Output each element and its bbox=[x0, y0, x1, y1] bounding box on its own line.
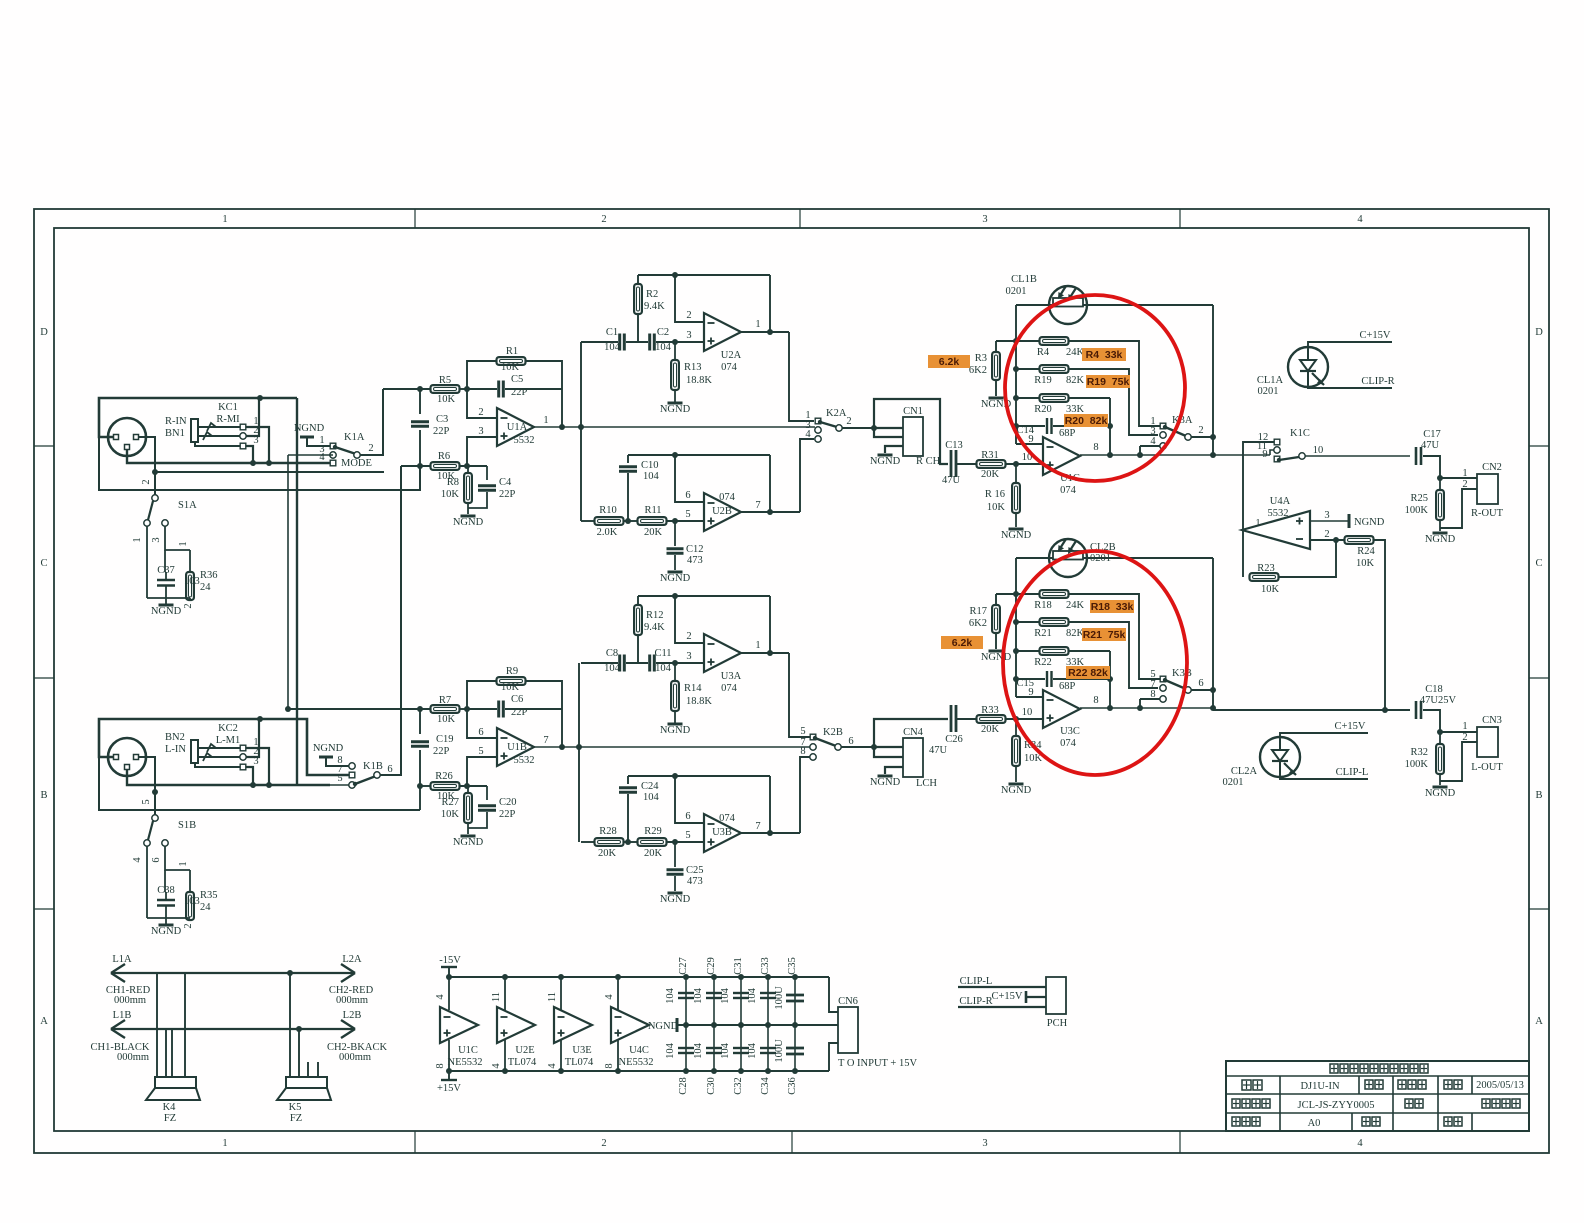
capacitor C20 bbox=[478, 806, 496, 811]
junction node top wire / KC1 pin2 bbox=[257, 395, 263, 401]
wire row3 down bbox=[1109, 398, 1111, 426]
svg-text:3: 3 bbox=[982, 1138, 987, 1149]
svg-text:R4 33k: R4 33k bbox=[1086, 349, 1123, 361]
svg-text:U2A: U2A bbox=[721, 350, 742, 361]
wire row3 left bbox=[1016, 650, 1040, 652]
junction bbox=[1210, 705, 1216, 711]
wire R25 bottom lead bbox=[1439, 520, 1441, 531]
svg-text:20K: 20K bbox=[644, 527, 663, 538]
svg-text:2: 2 bbox=[478, 407, 483, 418]
wire row1 right down to switch pin bbox=[1068, 341, 1160, 426]
svg-text:C+15V: C+15V bbox=[991, 991, 1022, 1002]
title block column line bbox=[1471, 1076, 1473, 1094]
capacitor C1 bbox=[620, 334, 625, 351]
svg-text:20K: 20K bbox=[981, 469, 1000, 480]
title block row line bbox=[1226, 1075, 1529, 1077]
wire C12 riser bbox=[674, 521, 676, 546]
svg-text:68P: 68P bbox=[1059, 681, 1076, 692]
svg-text:103: 103 bbox=[184, 576, 200, 587]
svg-text:10K: 10K bbox=[1356, 558, 1375, 569]
wire to inverting input bbox=[675, 275, 704, 322]
junction bbox=[1437, 729, 1443, 735]
resistor R3 bbox=[992, 352, 1000, 380]
svg-text:S1B: S1B bbox=[178, 820, 196, 831]
wire C12 riser bbox=[674, 842, 676, 867]
contact switch pin c bbox=[1160, 443, 1166, 449]
junction trunk bbox=[1210, 687, 1216, 693]
wire to contact bbox=[1140, 698, 1160, 700]
svg-text:0201: 0201 bbox=[1006, 286, 1027, 297]
wire C30 branch bbox=[713, 1025, 715, 1071]
svg-text:R8: R8 bbox=[447, 477, 459, 488]
svg-text:C12: C12 bbox=[686, 544, 704, 555]
svg-text:473: 473 bbox=[687, 555, 703, 566]
resistor R10 bbox=[595, 517, 624, 525]
svg-text:4: 4 bbox=[491, 1063, 502, 1069]
svg-text:NGND: NGND bbox=[1425, 534, 1456, 545]
wire C18 to CN3 bbox=[1423, 710, 1477, 732]
wire KC1 pin3 down bbox=[246, 446, 253, 463]
svg-text:2: 2 bbox=[601, 214, 606, 225]
junction bbox=[1107, 705, 1113, 711]
svg-text:104: 104 bbox=[720, 987, 731, 1004]
title cell 制图 bbox=[1365, 1080, 1383, 1089]
svg-text:NGND: NGND bbox=[660, 894, 691, 905]
wire C10 lower lead bbox=[627, 473, 629, 521]
wire bottom rail to CN6 bbox=[829, 1043, 838, 1071]
wire CN4 pin1 bbox=[874, 746, 903, 748]
svg-text:6.2k: 6.2k bbox=[939, 356, 960, 368]
wire C29 branch bbox=[713, 977, 715, 1025]
wire between caps bbox=[626, 341, 648, 343]
wire row right bbox=[656, 662, 704, 664]
junction top rail bbox=[615, 974, 621, 980]
svg-text:104: 104 bbox=[604, 663, 621, 674]
wire through CL1B bbox=[1049, 304, 1087, 306]
contact K2A pin3 bbox=[815, 427, 821, 433]
wire to pin6 bbox=[675, 776, 704, 823]
junction bbox=[1107, 452, 1113, 458]
capacitor C35 100U bbox=[786, 995, 804, 1001]
svg-text:074: 074 bbox=[719, 492, 736, 503]
svg-text:24: 24 bbox=[200, 902, 211, 913]
zone divider top bbox=[1179, 209, 1181, 228]
wire row1 left bbox=[996, 340, 1040, 342]
wire U2A output to K2A pin1 bbox=[789, 332, 814, 421]
svg-text:2.0K: 2.0K bbox=[597, 527, 618, 538]
svg-text:NE5532: NE5532 bbox=[619, 1057, 654, 1068]
svg-text:C6: C6 bbox=[511, 694, 523, 705]
contact switch pin a bbox=[1160, 676, 1166, 682]
contact switch pin b bbox=[1160, 685, 1166, 691]
wire row right bbox=[656, 341, 704, 343]
ground NGND mid rail bbox=[676, 1018, 679, 1032]
capacitor C26 bbox=[951, 705, 956, 732]
title company name 广州志士栗电子有限公司 bbox=[1330, 1064, 1428, 1073]
svg-text:BN2: BN2 bbox=[165, 732, 185, 743]
svg-text:PCH: PCH bbox=[1047, 1018, 1068, 1029]
wire R8 bottom lead bbox=[467, 823, 469, 834]
svg-text:3: 3 bbox=[1324, 510, 1329, 521]
svg-text:CLIP-L: CLIP-L bbox=[960, 976, 993, 987]
wire up to feedback resistor bbox=[467, 681, 497, 709]
highlight R18&#160;&#160;33k bbox=[1090, 600, 1134, 613]
wire +15V stem bbox=[448, 1071, 450, 1080]
junction mid rail bbox=[765, 1022, 771, 1028]
svg-text:074: 074 bbox=[721, 362, 738, 373]
wire C27 branch bbox=[685, 977, 687, 1025]
wire supply pin top U1C bbox=[448, 977, 450, 1010]
contact K1A pin4 bbox=[330, 460, 336, 466]
wire S1B pin6 to RC top bbox=[165, 846, 190, 870]
wire C37 riser bbox=[164, 550, 166, 572]
highlight R19&#160;&#160;75k bbox=[1086, 375, 1130, 388]
junction top rail bbox=[738, 974, 744, 980]
wire K2A pin2 right bbox=[842, 427, 874, 429]
op-amp U3E bbox=[554, 1007, 592, 1043]
junction R8 node bbox=[464, 783, 470, 789]
resistor R9 bbox=[497, 677, 526, 685]
wire row2 left bbox=[1016, 621, 1040, 623]
svg-text:10K: 10K bbox=[437, 714, 456, 725]
svg-text:KC2: KC2 bbox=[218, 723, 238, 734]
wire trunk x579 bbox=[578, 663, 580, 842]
wire KC2 pin1 down bbox=[246, 748, 269, 785]
svg-text:5532: 5532 bbox=[514, 755, 535, 766]
svg-text:22P: 22P bbox=[499, 489, 516, 500]
wire C12 bottom lead bbox=[674, 555, 676, 570]
svg-text:R22: R22 bbox=[1034, 657, 1052, 668]
wire R13 bottom lead bbox=[674, 711, 676, 723]
capacitor C28 bbox=[678, 1048, 694, 1053]
wire main row ch1 bbox=[533, 426, 815, 428]
wire R13 top lead bbox=[674, 342, 676, 360]
wire C32 branch bbox=[740, 1025, 742, 1071]
svg-text:5: 5 bbox=[800, 726, 805, 737]
wire XLR2 left down long y810 bbox=[99, 757, 420, 810]
ground NGND U4A pin3 bbox=[1348, 514, 1351, 528]
svg-text:C18: C18 bbox=[1425, 684, 1443, 695]
wire R13 bottom lead bbox=[674, 390, 676, 402]
contact S1B pin6 bbox=[162, 840, 168, 846]
svg-text:104: 104 bbox=[747, 987, 758, 1004]
wire C4 bottom bbox=[468, 812, 487, 828]
svg-text:C31: C31 bbox=[733, 957, 744, 975]
ground NGND S1A bbox=[151, 605, 182, 617]
wire C28 branch bbox=[685, 1025, 687, 1071]
wire XLR1 left down long y490 bbox=[99, 437, 420, 490]
svg-text:B: B bbox=[1535, 790, 1542, 801]
wire to inverting input bbox=[675, 596, 704, 643]
svg-text:U1A: U1A bbox=[507, 422, 528, 433]
capacitor C36 100U bbox=[786, 1048, 804, 1054]
title block column line bbox=[1358, 1076, 1360, 1094]
wire to ground bbox=[165, 598, 167, 604]
svg-text:82K: 82K bbox=[1066, 628, 1085, 639]
LED CL2A bbox=[1260, 737, 1300, 777]
capacitor C12 bbox=[667, 549, 684, 554]
contact K1B pin7 bbox=[349, 772, 355, 778]
resistor R20 bbox=[1040, 394, 1069, 402]
contact KC2 pin3 bbox=[240, 764, 246, 770]
wire CL1B row left bbox=[1016, 304, 1049, 306]
svg-text:B: B bbox=[40, 790, 47, 801]
svg-text:10K: 10K bbox=[987, 502, 1006, 513]
junction R34 node bbox=[1013, 716, 1019, 722]
junction trunk bbox=[576, 744, 582, 750]
svg-text:KC1: KC1 bbox=[218, 402, 238, 413]
arrow L2B bbox=[341, 1020, 355, 1038]
wire bbox=[459, 708, 467, 710]
capacitor C37 bbox=[157, 580, 175, 586]
svg-text:CN1: CN1 bbox=[903, 406, 923, 417]
resistor R11 bbox=[638, 517, 667, 525]
svg-text:L1B: L1B bbox=[113, 1010, 132, 1021]
wire into pin11 bbox=[1270, 450, 1274, 455]
junction bbox=[296, 1026, 302, 1032]
wire to speaker K4 c bbox=[165, 1029, 167, 1077]
connector PCH bbox=[1046, 977, 1066, 1014]
capacitor C32 bbox=[733, 1048, 749, 1053]
wire R23 to pin2 node bbox=[1279, 540, 1336, 577]
capacitor C30 bbox=[706, 1048, 722, 1053]
op-amp U2A bbox=[704, 313, 741, 351]
wire L1A-L2A bbox=[111, 972, 355, 974]
svg-text:NGND: NGND bbox=[648, 1021, 679, 1032]
svg-text:D: D bbox=[40, 327, 48, 338]
svg-text:C27: C27 bbox=[678, 957, 689, 975]
svg-text:R7: R7 bbox=[439, 695, 451, 706]
junction bus bbox=[1013, 676, 1019, 682]
junction bbox=[1107, 676, 1113, 682]
capacitor C6 bbox=[499, 701, 504, 718]
resistor R36 bbox=[186, 572, 194, 600]
svg-text:R35: R35 bbox=[200, 890, 218, 901]
title block column line bbox=[1471, 1113, 1473, 1131]
capacitor C3 bbox=[411, 422, 429, 427]
resistor R6 bbox=[431, 462, 460, 470]
svg-text:9.4K: 9.4K bbox=[644, 301, 665, 312]
svg-text:68P: 68P bbox=[1059, 428, 1076, 439]
junction bus bbox=[1013, 423, 1019, 429]
junction top rail bbox=[502, 974, 508, 980]
junction R16 node bbox=[1013, 461, 1019, 467]
wire CL1A to C+15V bbox=[1308, 342, 1392, 349]
svg-text:1: 1 bbox=[1255, 518, 1260, 529]
capacitor C27 bbox=[678, 993, 694, 998]
svg-text:R24: R24 bbox=[1357, 546, 1375, 557]
wire K1A pin3 left bbox=[288, 454, 333, 456]
title cell 序批人 bbox=[1398, 1080, 1426, 1089]
wire C36 branch bbox=[794, 1025, 796, 1071]
capacitor C24 bbox=[619, 788, 637, 793]
svg-text:6: 6 bbox=[478, 727, 483, 738]
contact S1A pin2 bbox=[152, 495, 158, 501]
svg-text:R18 33k: R18 33k bbox=[1091, 601, 1134, 613]
svg-text:104: 104 bbox=[643, 471, 660, 482]
title cell 日期2 bbox=[1444, 1117, 1462, 1126]
svg-text:4: 4 bbox=[319, 452, 325, 463]
resistor R19 bbox=[1040, 365, 1069, 373]
svg-text:5: 5 bbox=[685, 509, 690, 520]
svg-text:2: 2 bbox=[1198, 425, 1203, 436]
svg-text:K2A: K2A bbox=[826, 408, 847, 419]
title block column line bbox=[1437, 1076, 1439, 1131]
svg-text:82K: 82K bbox=[1066, 375, 1085, 386]
resistor R25 bbox=[1436, 490, 1444, 520]
junction bbox=[625, 518, 631, 524]
wire CN1 pin3 to ground bbox=[885, 446, 903, 453]
wire switch common to trunk bbox=[1191, 689, 1213, 691]
resistor R21 bbox=[1040, 618, 1069, 626]
svg-text:K2B: K2B bbox=[823, 727, 843, 738]
wire supply pin bottom U4C bbox=[617, 1040, 619, 1071]
junction bottom rail bbox=[615, 1068, 621, 1074]
wire S1A down left bbox=[146, 526, 148, 598]
ground NGND CN4 bbox=[870, 776, 901, 788]
wire bbox=[623, 520, 638, 522]
svg-text:CLIP-R: CLIP-R bbox=[959, 996, 992, 1007]
svg-text:R18: R18 bbox=[1034, 600, 1052, 611]
wire CLIP-L bbox=[958, 986, 1046, 988]
zone divider bottom bbox=[414, 1131, 416, 1153]
svg-text:4: 4 bbox=[805, 429, 811, 440]
contact K1C pin11 bbox=[1274, 447, 1280, 453]
wire trunk x288 down to R7 row bbox=[287, 455, 289, 709]
resistor R35 bbox=[186, 892, 194, 920]
junction bbox=[1210, 452, 1216, 458]
junction bottom rail bbox=[446, 1068, 452, 1074]
wire to inverting input bbox=[467, 389, 497, 418]
zone divider top bbox=[414, 209, 416, 228]
svg-text:R26: R26 bbox=[435, 771, 453, 782]
svg-text:2: 2 bbox=[183, 923, 194, 928]
svg-text:000mm: 000mm bbox=[114, 995, 146, 1006]
svg-text:U3B: U3B bbox=[712, 827, 732, 838]
wire NGND to K1B pin8 bbox=[326, 757, 349, 766]
resistor R17 bbox=[992, 605, 1000, 633]
contact K1B pin5 bbox=[349, 782, 355, 788]
wire K2B pin6 right bbox=[841, 746, 874, 748]
svg-text:473: 473 bbox=[687, 876, 703, 887]
svg-text:CN3: CN3 bbox=[1482, 715, 1502, 726]
junction bottom rail bbox=[558, 1068, 564, 1074]
wire CN1 pin2 bbox=[874, 428, 903, 437]
svg-text:5532: 5532 bbox=[1268, 508, 1289, 519]
zone divider left bbox=[34, 677, 54, 679]
svg-text:103: 103 bbox=[184, 896, 200, 907]
svg-text:100K: 100K bbox=[1405, 505, 1429, 516]
wire long y472 bbox=[155, 471, 384, 473]
svg-text:1: 1 bbox=[543, 415, 548, 426]
svg-text:NGND: NGND bbox=[294, 423, 325, 434]
junction bbox=[672, 593, 678, 599]
junction bus bbox=[1013, 648, 1019, 654]
svg-text:074: 074 bbox=[1060, 485, 1077, 496]
wire R32 top lead bbox=[1439, 732, 1441, 744]
wire XLR2 top loop bbox=[99, 719, 260, 757]
svg-text:R33: R33 bbox=[981, 705, 999, 716]
junction on output row bbox=[559, 424, 565, 430]
wire CN1 loop to C13 bbox=[874, 399, 948, 464]
red marker circle ch1 bbox=[1005, 295, 1185, 481]
svg-text:C2: C2 bbox=[657, 327, 669, 338]
svg-text:NGND: NGND bbox=[1425, 788, 1456, 799]
junction mid rail bbox=[683, 1022, 689, 1028]
svg-text:8: 8 bbox=[800, 746, 805, 757]
svg-text:10K: 10K bbox=[1261, 584, 1280, 595]
svg-text:6: 6 bbox=[685, 490, 690, 501]
ground NGND below R25 bbox=[1425, 533, 1456, 545]
switch arm K1B bbox=[353, 772, 380, 786]
junction bus bbox=[1013, 619, 1019, 625]
LED CL1A bbox=[1288, 347, 1328, 387]
svg-text:C32: C32 bbox=[733, 1077, 744, 1095]
wire output bbox=[741, 652, 789, 654]
wire row1 right down to switch pin bbox=[1068, 594, 1160, 679]
ground NGND below R27 bbox=[453, 836, 484, 848]
wire C17 to CN2 bbox=[1423, 456, 1477, 478]
svg-text:104: 104 bbox=[693, 987, 704, 1004]
junction bbox=[1333, 537, 1339, 543]
capacitor C2 bbox=[650, 334, 655, 351]
wire C10 riser bbox=[627, 455, 629, 463]
resistor R24 bbox=[1345, 536, 1374, 544]
svg-text:18.8K: 18.8K bbox=[686, 375, 712, 386]
connector CN6 bbox=[838, 1007, 858, 1053]
svg-text:4: 4 bbox=[1357, 1138, 1363, 1149]
zone divider right bbox=[1529, 677, 1549, 679]
svg-text:10: 10 bbox=[1022, 707, 1033, 718]
svg-text:5532: 5532 bbox=[514, 435, 535, 446]
wire C19 node down to y810 bbox=[419, 786, 421, 810]
junction mid rail bbox=[711, 1022, 717, 1028]
wire left bus bbox=[1015, 558, 1017, 679]
svg-text:R 16: R 16 bbox=[985, 489, 1005, 500]
junction CN1 node bbox=[871, 425, 877, 431]
ground NGND S1B bbox=[151, 925, 182, 937]
wire cap row right bbox=[1053, 425, 1110, 427]
svg-text:6K2: 6K2 bbox=[969, 618, 987, 629]
svg-text:R13: R13 bbox=[684, 362, 702, 373]
op-amp U1C bbox=[440, 1007, 478, 1043]
wire R6 row right bbox=[459, 785, 487, 787]
wire switch common to trunk bbox=[1191, 436, 1213, 438]
junction bottom rail bbox=[738, 1068, 744, 1074]
wire C4 riser bbox=[486, 786, 488, 800]
wire feedback right down bbox=[526, 361, 562, 427]
svg-text:C14: C14 bbox=[1016, 425, 1034, 436]
arrow L1B bbox=[111, 1020, 125, 1038]
svg-text:104: 104 bbox=[747, 1042, 758, 1059]
svg-text:NGND: NGND bbox=[660, 404, 691, 415]
contact S1A pin1 bbox=[144, 520, 150, 526]
svg-text:C28: C28 bbox=[678, 1077, 689, 1095]
junction bbox=[767, 329, 773, 335]
switch arm K3B bbox=[1163, 678, 1191, 693]
svg-text:CL1B: CL1B bbox=[1011, 274, 1037, 285]
svg-text:A: A bbox=[40, 1016, 48, 1027]
junction bus bbox=[1013, 338, 1019, 344]
wire to non-inverting input bbox=[467, 757, 497, 786]
svg-text:DJ1U-IN: DJ1U-IN bbox=[1300, 1081, 1339, 1092]
ground NGND K1A bbox=[300, 436, 314, 439]
wire down to output bbox=[1109, 679, 1111, 708]
wire S1B down left bbox=[146, 846, 148, 918]
svg-text:U1C: U1C bbox=[458, 1045, 478, 1056]
svg-text:R17: R17 bbox=[969, 606, 987, 617]
highlight 6.2k ch2 bbox=[941, 636, 983, 649]
